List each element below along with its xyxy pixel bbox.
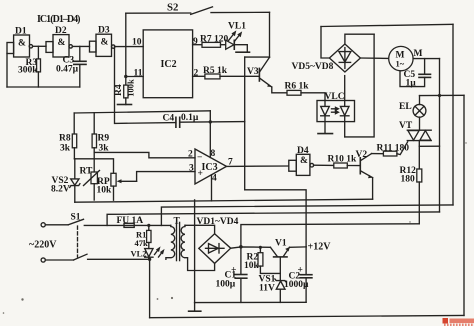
svg-text:R6 1k: R6 1k — [285, 82, 310, 92]
VLC input LED — [321, 101, 330, 134]
gate D3 — [90, 26, 115, 57]
switch S1 upper pole — [45, 213, 124, 226]
capacitor C3 — [56, 46, 86, 87]
capacitor C5 — [400, 59, 431, 89]
wire RP wiper to pin3 — [137, 172, 195, 182]
resistor R3 — [18, 46, 41, 87]
svg-text:4: 4 — [212, 174, 217, 184]
resistor R8 — [59, 113, 77, 159]
gate D1 — [7, 27, 33, 58]
wire ground column x194.6 — [194, 200, 196, 303]
transformer T secondary — [181, 225, 215, 270]
lamp EL — [399, 96, 426, 118]
svg-text:0.47µ: 0.47µ — [56, 65, 79, 75]
svg-text:M: M — [414, 49, 423, 59]
svg-text:C4: C4 — [163, 114, 175, 124]
wire IC3 pin4 to ground bus — [211, 175, 213, 201]
triac VT — [399, 117, 431, 141]
svg-text:300k: 300k — [18, 66, 38, 76]
svg-text:D3: D3 — [98, 26, 110, 36]
wire S2 branch W1 — [245, 190, 306, 247]
wire VL1 to ground — [234, 45, 247, 52]
node bridge plus / C1 — [239, 245, 243, 249]
terminal lower — [41, 258, 45, 262]
svg-text:11V: 11V — [259, 284, 275, 294]
svg-text:+: + — [198, 169, 203, 179]
wire pin2 from R9 — [94, 152, 195, 157]
wire bridge right to motor — [360, 57, 388, 59]
node C4 wire with pin8 — [209, 120, 212, 123]
wire ground bus B1 — [75, 199, 373, 202]
node pin11 junction — [124, 75, 127, 78]
svg-text:9: 9 — [193, 37, 198, 47]
wire R8 node to RP top — [74, 159, 113, 174]
capacitor C4 — [115, 47, 245, 128]
svg-text:R8: R8 — [59, 134, 71, 144]
wire V3 collector node to S2 drop — [245, 56, 270, 58]
wire live bus B2 — [161, 205, 453, 226]
wire +12V branch vertical x244.7 — [244, 57, 246, 190]
wire motor bus B3 — [107, 212, 439, 226]
resistor R10 — [314, 155, 360, 169]
svg-text:1µ: 1µ — [406, 79, 417, 89]
LED VL2 — [131, 248, 164, 259]
wire IC3 pin7 to D4 — [227, 165, 289, 167]
svg-text:&: & — [18, 39, 26, 49]
wire neutral down to bottom rail — [149, 259, 151, 317]
op-amp IC3 — [188, 149, 233, 184]
wire EL node line — [420, 94, 465, 96]
svg-text:0.1µ: 0.1µ — [181, 113, 199, 123]
resistor R9 — [92, 113, 109, 172]
transistor V3 — [247, 57, 272, 87]
svg-text:VL2: VL2 — [131, 249, 147, 259]
wire R6 to VLC — [301, 93, 325, 101]
LED VL1 — [221, 22, 247, 50]
switch S1 gang link (dashed) — [77, 226, 79, 257]
wire mid bus M1 (R8/R9 tops to pin8) — [74, 111, 210, 113]
resistor R4 — [114, 77, 136, 105]
svg-text:D4: D4 — [297, 146, 309, 156]
terminal upper — [41, 223, 45, 227]
svg-text:3k: 3k — [60, 144, 71, 154]
svg-text:47k: 47k — [135, 238, 149, 248]
wire D3 out to IC2 pin10 — [115, 46, 143, 48]
svg-text:8: 8 — [211, 149, 216, 159]
wire bridge plus to V1 — [231, 247, 271, 248]
motor M — [389, 46, 423, 70]
svg-text:1~: 1~ — [396, 59, 405, 69]
VLC output LED — [340, 76, 349, 137]
resistor R6 — [285, 82, 310, 96]
svg-text:VT: VT — [399, 121, 413, 131]
svg-text:&: & — [101, 38, 109, 48]
svg-text:IC2: IC2 — [161, 59, 177, 70]
svg-text:S2: S2 — [167, 2, 178, 14]
svg-text:10k: 10k — [97, 186, 113, 196]
ground below rail — [189, 303, 201, 312]
ground below VLC input — [318, 133, 333, 135]
node motor column on EL line — [438, 94, 441, 97]
wire feedback bottom — [7, 86, 80, 88]
gate D4 — [289, 146, 314, 175]
resistor R7 — [193, 35, 229, 48]
svg-text:RT: RT — [80, 167, 94, 177]
svg-text:+12V: +12V — [308, 242, 332, 253]
bridge rectifier VD5-VD8 — [292, 44, 361, 72]
wire bridge top bus — [345, 34, 374, 44]
svg-text:IC3: IC3 — [202, 162, 218, 173]
resistor R1 — [135, 224, 152, 249]
bridge rectifier VD1-VD4 — [197, 217, 239, 263]
svg-text:R9: R9 — [98, 134, 110, 144]
transformer T primary — [166, 225, 175, 259]
IC U2 (IC2 box) — [143, 30, 192, 98]
svg-text:FU 1A: FU 1A — [117, 216, 144, 226]
resistor R2 — [244, 246, 280, 274]
transistor V1 — [270, 239, 289, 280]
gate D2 — [46, 26, 72, 57]
svg-text:−: − — [197, 153, 202, 163]
svg-text:VL1: VL1 — [228, 22, 246, 32]
wire VT bottom node — [418, 141, 420, 169]
wire motor right — [413, 58, 439, 60]
wire VLC output bottom to bridge top bus — [345, 34, 374, 137]
wire pin11 — [126, 76, 143, 78]
svg-text:V2: V2 — [356, 150, 368, 160]
wire motor column down — [439, 59, 441, 212]
svg-text:D1: D1 — [15, 27, 27, 37]
svg-text:10k: 10k — [244, 261, 260, 271]
svg-text:R7 120: R7 120 — [200, 35, 228, 45]
svg-text:R5 1k: R5 1k — [203, 66, 228, 76]
capacitor C2 — [284, 247, 312, 302]
potentiometer RP — [97, 173, 137, 200]
svg-text:&: & — [58, 38, 66, 48]
ground below VL1 — [236, 51, 250, 53]
resistor R5 — [193, 66, 260, 79]
wire top rail right drop — [452, 24, 454, 205]
svg-text:10: 10 — [132, 38, 142, 48]
resistor R12 — [400, 166, 422, 224]
wire top rail — [321, 24, 453, 26]
wire bottom rail — [150, 315, 464, 317]
wire VT right stub to motor column — [419, 145, 439, 147]
svg-text:D2: D2 — [55, 26, 67, 36]
wire feedback left vertical — [6, 54, 8, 88]
wire V1 emitter to +12V node — [290, 246, 307, 248]
transistor V2 — [356, 150, 373, 178]
svg-text:~220V: ~220V — [29, 240, 57, 251]
resistor R11 — [372, 142, 410, 156]
svg-text:V1: V1 — [275, 239, 287, 249]
capacitor C1 — [216, 247, 247, 303]
svg-text:VLC: VLC — [325, 92, 345, 102]
wire V3 emitter to R6 — [272, 87, 287, 93]
wire bridge left to top rail — [321, 27, 329, 59]
transformer T core — [174, 217, 181, 261]
switch S1 lower pole — [45, 254, 149, 260]
scan speckles — [3, 142, 467, 314]
wire DC plus bus y224 — [241, 224, 419, 247]
svg-text:2: 2 — [194, 69, 199, 79]
zener VS1 — [259, 275, 287, 303]
svg-text:8.2V: 8.2V — [51, 185, 70, 195]
svg-text:R4: R4 — [114, 84, 124, 96]
optocoupler VLC — [317, 92, 355, 122]
watermark (red site logo) — [443, 318, 474, 326]
wire right border down — [463, 95, 465, 315]
svg-text:1000µ: 1000µ — [284, 280, 309, 290]
ground below R4 — [118, 104, 132, 106]
svg-text:VD1~VD4: VD1~VD4 — [197, 217, 239, 227]
optocoupler coupling arrows — [332, 107, 339, 110]
zener VS2 — [51, 159, 80, 202]
wire S2 vertical to pin11 node — [125, 13, 127, 76]
svg-text:VD5~VD8: VD5~VD8 — [292, 62, 334, 72]
svg-text:V3: V3 — [247, 67, 259, 77]
wire D2 out to D3 in — [72, 45, 89, 47]
wire supply common rail — [195, 301, 307, 303]
wire D1 out to D2 in — [33, 45, 46, 47]
node VL2 cathode on neutral wire — [148, 258, 151, 261]
wire V2 emitter down to ground bus — [372, 178, 374, 200]
fuse FU 1A — [117, 216, 171, 228]
svg-text:&: & — [300, 156, 308, 166]
wire S2 right drop — [269, 12, 271, 57]
thermistor RT — [80, 167, 100, 201]
svg-text:EL: EL — [399, 102, 412, 112]
svg-text:100k: 100k — [126, 79, 136, 97]
svg-text:IC1(D1–D4): IC1(D1–D4) — [37, 14, 81, 25]
switch S2 — [126, 2, 270, 15]
svg-text:180: 180 — [401, 175, 416, 185]
svg-text:100µ: 100µ — [216, 280, 236, 290]
wire IC3 pin8 from mid bus — [209, 111, 211, 158]
svg-text:R10 1k: R10 1k — [328, 155, 357, 165]
